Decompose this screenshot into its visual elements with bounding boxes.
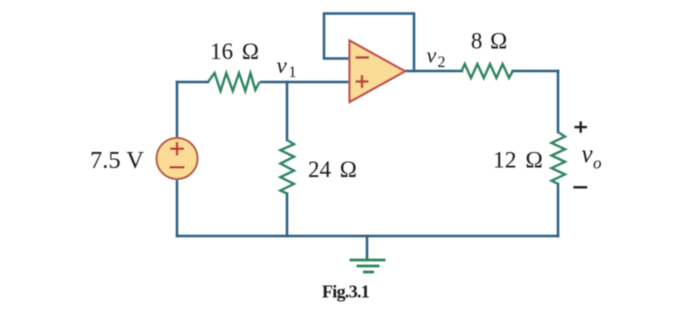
svg-text:16 Ω: 16 Ω	[210, 39, 259, 64]
svg-text:o: o	[593, 154, 602, 173]
svg-text:Fig.3.1: Fig.3.1	[322, 282, 370, 302]
svg-text:1: 1	[289, 64, 297, 81]
svg-text:24 Ω: 24 Ω	[308, 157, 357, 182]
svg-text:12 Ω: 12 Ω	[493, 148, 543, 174]
svg-text:v: v	[427, 43, 437, 68]
svg-text:7.5 V: 7.5 V	[90, 147, 144, 174]
svg-text:v: v	[582, 141, 594, 168]
svg-text:v: v	[277, 53, 288, 78]
svg-text:8 Ω: 8 Ω	[471, 29, 507, 54]
svg-text:2: 2	[438, 54, 446, 71]
